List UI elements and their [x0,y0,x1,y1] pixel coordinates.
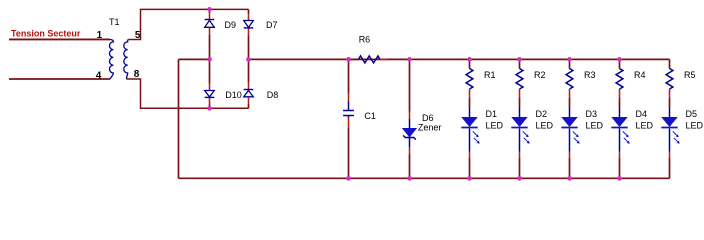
svg-text:8: 8 [134,69,140,80]
transformer T1 primary winding [110,40,114,80]
svg-text:R6: R6 [359,35,371,45]
LED D2 pin end (red) [519,152,521,159]
resistor R6 pin right (red) [380,58,389,60]
LED D3 pin end (red) [569,152,571,159]
junction bottom rail at D1 [467,176,472,181]
LED D5 [662,117,677,126]
wire bridge negative node horizontal [179,58,210,60]
svg-text:D1: D1 [486,109,498,119]
junction top rail at R4 [617,57,622,62]
wire D3 branch bottom [569,158,571,178]
wire C1 branch top [348,59,350,93]
resistor R5 pin bottom (red) [669,89,671,98]
wire R1 to LED D1 [469,98,471,107]
LED D3 [562,117,577,126]
diode D7 pin top (red) [248,14,250,21]
wire D6 branch bottom [409,155,411,179]
junction top rail at D6 [407,57,412,62]
LED D5 pin top [669,107,671,118]
LED D5 pin bottom [669,129,671,152]
wire bridge right branch middle [248,36,250,83]
junction top rail at R1 [467,57,472,62]
LED D2 emission arrow 1 [523,131,527,135]
wire bridge left branch upper [209,9,211,12]
diode D8 pin top (red) [248,82,250,90]
resistor R4 pin bottom (red) [619,89,621,98]
junction top rail at R3 [567,57,572,62]
wire D4 branch bottom [619,158,621,178]
wire R3 to LED D3 [569,98,571,107]
junction bridge right mid [246,57,251,62]
svg-text:D9: D9 [225,20,237,30]
diode D8 [244,89,254,91]
junction bridge top [207,7,212,12]
LED D4 pin bottom [619,129,621,152]
resistor R2 pin bottom (red) [519,89,521,98]
junction bottom rail at D6 [407,176,412,181]
diode D7 pin bottom (red) [248,29,250,36]
zener D6 pin bottom (red) [409,147,411,155]
LED D1 emission arrow 1 [473,131,477,135]
wire bridge right branch lower [248,104,250,108]
junction top rail at C1 [346,57,351,62]
capacitor C1 pin bottom (red) [348,118,350,128]
svg-text:D7: D7 [266,20,278,30]
wire D5 branch bottom [669,158,671,178]
junction bottom rail at D2 [517,176,522,181]
wire D1 branch bottom [469,158,471,178]
junction bridge bottom [207,106,212,111]
resistor R1 [466,69,473,90]
wire mains bottom to T1 pin 4 [9,78,110,80]
junction bottom rail at C1 [346,176,351,181]
capacitor C1 [348,102,350,111]
junction bottom rail at D4 [617,176,622,181]
LED D4 emission arrow 2 [624,138,628,142]
LED D2 pin bottom [519,129,521,152]
resistor R5 [666,69,673,90]
diode D10 [205,91,215,97]
svg-text:R5: R5 [684,70,696,80]
wire R4 to LED D4 [619,98,621,107]
LED D4 pin end (red) [619,152,621,159]
svg-text:D5: D5 [686,109,698,119]
wire bridge left branch lower [209,105,211,109]
wire R5 to LED D5 [669,98,671,107]
wire R3 branch top lead [569,59,571,68]
wire mains top to T1 pin 1 [9,38,110,40]
wire bridge right branch upper [248,9,250,13]
svg-text:D2: D2 [536,109,548,119]
LED D2 [512,117,527,126]
svg-text:D4: D4 [636,109,648,119]
transformer T1 secondary winding [124,40,129,80]
junction bridge left mid [207,57,212,62]
LED D5 emission arrow 2 [674,138,678,142]
LED D5 emission arrow 1 [673,131,677,135]
svg-text:D3: D3 [586,109,598,119]
wire bridge negative vertical down [178,59,180,178]
resistor R2 [516,69,523,90]
svg-text:D10: D10 [225,90,242,100]
svg-text:Zener: Zener [418,122,442,132]
svg-text:LED: LED [636,121,654,131]
LED D1 pin top [469,107,471,118]
diode D10 pin bottom (red) [209,98,211,105]
wire R5 branch top lead [669,59,671,68]
diode D9 pin bottom (red) [209,28,211,36]
wire R1 branch top lead [469,59,471,68]
LED D4 pin top [619,107,621,118]
svg-text:C1: C1 [364,111,376,121]
svg-text:LED: LED [586,121,604,131]
diode D9 pin top (red) [209,13,211,20]
LED D4 [612,117,627,126]
svg-text:R2: R2 [534,70,546,80]
LED D2 emission arrow 2 [524,138,528,142]
resistor R3 [566,69,573,90]
junction bottom rail at D3 [567,176,572,181]
LED D3 emission arrow 2 [574,138,578,142]
resistor R3 pin bottom (red) [569,89,571,98]
LED D3 pin bottom [569,129,571,152]
svg-text:LED: LED [486,121,504,131]
junction top rail at R2 [517,57,522,62]
wire T1 pin 5 up to bridge AC top rail [128,9,248,39]
svg-text:R3: R3 [584,70,596,80]
svg-text:LED: LED [536,121,554,131]
wire R2 to LED D2 [519,98,521,107]
resistor R6 [359,56,381,63]
LED D3 pin top [569,107,571,118]
resistor R1 pin bottom (red) [469,89,471,98]
capacitor C1 pin top (red) [348,94,350,102]
svg-text:Tension Secteur: Tension Secteur [11,29,81,39]
svg-text:4: 4 [96,70,102,81]
LED D4 emission arrow 1 [623,131,627,135]
svg-text:R1: R1 [484,70,496,80]
wire D2 branch bottom [519,158,521,178]
LED D5 pin end (red) [669,152,671,159]
wire positive top rail [249,58,670,60]
LED D2 pin top [519,107,521,118]
svg-text:1: 1 [97,30,103,41]
zener D6 pin top (red) [409,112,411,120]
wire ground bottom rail [179,177,670,179]
wire D6 branch top [409,59,411,111]
diode D7 [244,21,254,28]
wire R6 left lead [349,58,359,60]
LED D1 emission arrow 2 [474,138,478,142]
wire C1 branch bottom [348,128,350,178]
resistor R4 [616,69,623,90]
wire R2 branch top lead [519,59,521,68]
wire bridge left branch middle [209,35,211,84]
svg-text:R4: R4 [634,70,646,80]
diode D8 pin bottom (red) [248,97,250,104]
svg-text:LED: LED [686,121,704,131]
diode D9 [205,19,215,21]
wire R4 branch top lead [619,59,621,68]
svg-text:D8: D8 [267,90,279,100]
LED D3 emission arrow 1 [573,131,577,135]
zener diode D6 [409,119,411,129]
LED D1 pin bottom [469,129,471,152]
svg-text:T1: T1 [109,17,120,27]
wire T1 pin 8 down to bridge AC bottom rail [126,79,248,108]
diode D10 pin top (red) [209,84,211,91]
LED D1 [462,117,477,126]
LED D1 pin end (red) [469,152,471,159]
